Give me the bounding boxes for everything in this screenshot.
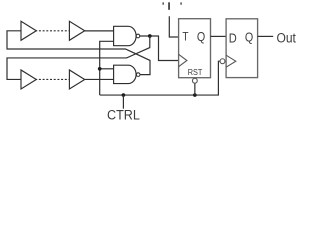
- bubble: D-FF inverted clock: [220, 59, 225, 64]
- buffer B1 (top delay chain, first): [21, 21, 36, 40]
- wire: top feedback from cross wire A into buffer B1: [7, 31, 21, 49]
- wire: CTRL branch to NAND N2 upper input: [100, 68, 114, 70]
- nand gate N2 (bottom): [114, 65, 136, 83]
- buffer B2 (top delay chain, second): [69, 21, 84, 40]
- svg-text:T: T: [182, 31, 188, 44]
- buffer B4 (bottom delay chain, second): [69, 70, 84, 89]
- node: RST junction on CTRL rail: [193, 93, 197, 97]
- svg-text:CTRL: CTRL: [107, 107, 140, 123]
- wire: B2 output to NAND N1 upper input: [85, 30, 114, 32]
- wire: B4 output to NAND N2 lower input: [85, 78, 114, 80]
- node: junction on N1 output: [148, 34, 152, 38]
- node: CTRL label junction: [122, 93, 126, 97]
- nand gate N1 (top): [114, 26, 137, 45]
- clock chevron of T-FF: [179, 54, 187, 66]
- wire: CTRL rail across the bottom, up to D-FF clock bubble: [100, 61, 220, 95]
- svg-text:Q: Q: [197, 29, 205, 44]
- svg-text:D: D: [229, 30, 237, 45]
- wire: up to RST bubble: [194, 83, 196, 95]
- wire: D-FF Q to Out: [258, 35, 274, 37]
- bubble: T-FF active-low reset: [192, 78, 197, 83]
- svg-text:Q: Q: [245, 30, 253, 45]
- svg-text:Out: Out: [277, 30, 297, 46]
- flip-flop U2: D flip-flop box: [226, 19, 258, 78]
- wire: CTRL vertical branch to NAND N1 lower input: [100, 41, 114, 95]
- wire: N2 output up, cross wire A to top chain feedback: [7, 49, 150, 75]
- clock chevron of D-FF: [226, 55, 236, 67]
- label constant '1' (tick, bar, tick): [163, 2, 164, 4]
- buffer B3 (bottom delay chain, first): [21, 70, 36, 89]
- flip-flop U1: T flip-flop box: [179, 19, 211, 78]
- bubble of N1 output: [136, 34, 140, 38]
- wire: constant 1 down to T input: [169, 16, 178, 37]
- wire: N1 output down, cross wire B to bottom chain input: [7, 36, 150, 79]
- wire: dashed delay line (top): [36, 30, 69, 32]
- wire: dashed delay line (bottom): [36, 78, 69, 80]
- wire: stub down to CTRL label: [122, 95, 124, 109]
- node: junction CTRL / N2 upper input: [98, 67, 102, 71]
- wire: T-FF Q output to D-FF input: [211, 35, 227, 37]
- svg-text:RST: RST: [188, 67, 203, 77]
- wire: N1 output to T-FF clock (down at right): [140, 36, 179, 61]
- bubble of N2 output: [136, 73, 140, 77]
